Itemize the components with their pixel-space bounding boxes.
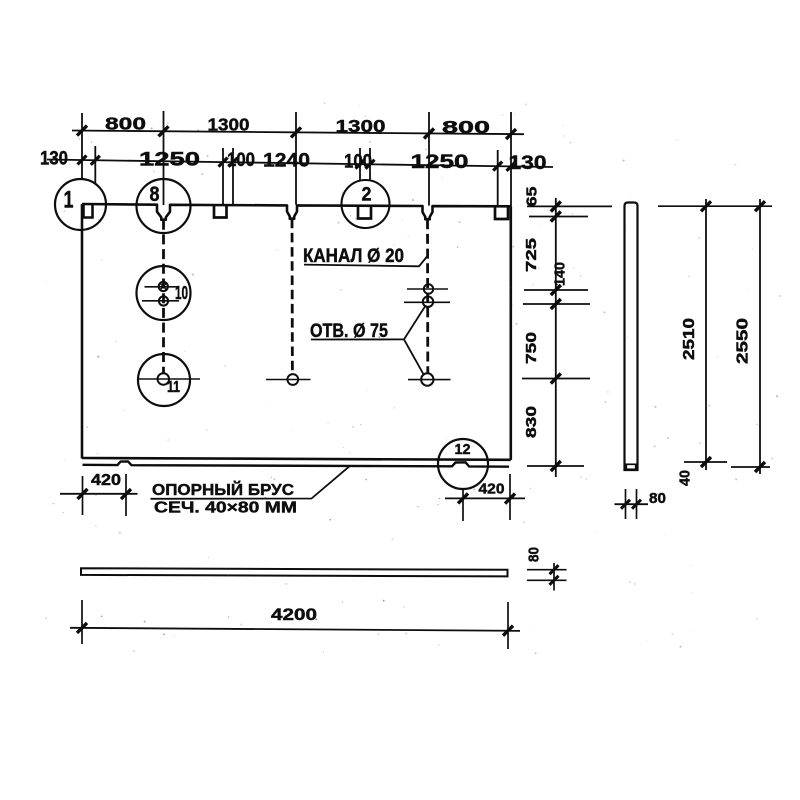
side view panel bar [625,203,638,471]
leader from label to strip [151,466,351,499]
dimension row 1 ticks [77,126,87,136]
svg-text:725: 725 [524,238,540,272]
channel dashed line 3 [426,219,429,373]
svg-text:420: 420 [479,482,505,498]
svg-text:100: 100 [227,150,255,171]
plan right edge [509,206,512,460]
marker circle 8 [137,179,191,233]
svg-text:1300: 1300 [208,115,250,135]
svg-text:КАНАЛ Ø 20: КАНАЛ Ø 20 [303,246,404,267]
hole small circle upper in circle 10 [159,282,168,291]
bottom extensions for 2510/2550 [684,461,727,463]
svg-text:2550: 2550 [735,318,752,364]
2510 dim line [705,199,707,470]
svg-text:130: 130 [509,153,547,174]
svg-text:750: 750 [524,332,540,364]
svg-text:8: 8 [150,183,160,206]
chain extension lines [527,205,612,207]
hole circle bottom of line 3 [421,373,433,385]
dimension row 1 line [72,131,524,135]
detail square right corner [495,206,508,219]
hole pair upper on line 3 [424,284,433,293]
center line through it [138,378,200,380]
svg-text:830: 830 [524,406,540,438]
cross in upper hole [160,283,167,290]
channel dashed line 2 [291,219,294,375]
plan left edge [81,204,84,459]
marker circle 1 [55,179,106,230]
center line lower [142,300,179,302]
plan bottom edge [82,458,511,460]
svg-text:420: 420 [91,472,121,489]
leader for OTV forked [311,307,425,340]
leader for KANAL [304,257,427,267]
2550 dim line [759,199,761,474]
svg-text:2510: 2510 [681,318,698,360]
marker circle 10 [137,266,191,320]
hole pair lower on line 3 [423,297,433,307]
hole small circle lower in circle 10 [159,296,168,305]
detail square at 1480 [214,205,227,217]
svg-text:4200: 4200 [271,606,317,624]
svg-text:1300: 1300 [336,116,386,136]
marker circle 2 [342,180,390,228]
dimension row 2 ticks [78,156,87,165]
top extension to right dims [658,205,772,207]
marker circle 11 [138,354,190,406]
svg-text:12: 12 [455,441,471,458]
svg-text:1: 1 [64,187,74,214]
svg-text:65: 65 [525,187,541,207]
svg-text:1250: 1250 [139,150,200,171]
corner detail square left [84,205,93,218]
4200 dim [70,628,520,631]
svg-text:100: 100 [344,152,372,173]
right 420 dim [445,497,525,499]
chain ticks [551,202,561,212]
svg-text:140: 140 [553,262,569,286]
svg-text:40: 40 [678,470,694,486]
marker circle 12 [438,439,488,489]
svg-text:800: 800 [105,114,146,134]
svg-text:ОПОРНЫЙ БРУС: ОПОРНЫЙ БРУС [152,480,294,499]
hole circle bottom of line 2 [287,374,298,385]
svg-text:СЕЧ. 40×80 ММ: СЕЧ. 40×80 ММ [154,500,297,517]
bottom bar 80 dim [553,563,555,591]
svg-text:80: 80 [527,547,543,562]
svg-text:1240: 1240 [263,151,310,172]
plan view panel outline: top edge with channel notches [82,204,511,220]
right dimension chain line [555,198,557,477]
svg-text:1250: 1250 [411,152,469,173]
svg-text:130: 130 [40,149,68,170]
svg-text:800: 800 [442,117,490,137]
detail square under circle 2 [358,206,371,219]
extension lines from top dims down to plan [81,113,83,179]
channel dashed line 1 [162,220,165,373]
side view 80 dim [625,489,627,519]
center line upper [145,286,180,288]
bottom view bar [81,568,508,576]
hole circle bottom of line 1 [158,373,170,385]
dimension row 2 line [47,160,553,168]
left 420 dim [60,493,138,495]
svg-text:2: 2 [362,185,372,206]
support strip bottom line with notches [83,461,510,466]
scan speckle noise [514,113,515,114]
side view brus section [626,464,635,469]
